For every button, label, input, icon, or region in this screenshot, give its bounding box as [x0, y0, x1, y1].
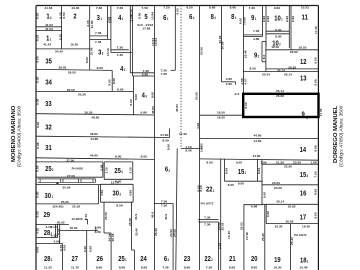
svg-text:7.36: 7.36 [204, 223, 211, 227]
wire 5|4-3 double a [130, 72, 154, 74]
svg-text:8.00: 8.00 [97, 66, 104, 70]
svg-text:8.66: 8.66 [229, 265, 236, 269]
svg-text:3: 3 [306, 116, 308, 120]
svg-text:17.32: 17.32 [179, 132, 187, 136]
svg-text:2: 2 [124, 68, 126, 72]
svg-text:9.3: 9.3 [235, 92, 240, 96]
svg-text:45.9: 45.9 [164, 213, 168, 220]
svg-text:63.56: 63.56 [194, 92, 198, 100]
svg-text:4.86: 4.86 [100, 189, 104, 196]
svg-text:25.18: 25.18 [72, 204, 80, 208]
svg-text:24: 24 [140, 254, 147, 263]
wire 4-3 left edge [132, 76, 134, 115]
svg-text:(Código: 69400) Altura: 3500: (Código: 69400) Altura: 3500 [16, 105, 22, 167]
svg-text:8.56: 8.56 [116, 203, 123, 207]
parcel 22-1 [206, 185, 214, 194]
wire 22-1|22-2 double b [198, 221, 218, 223]
svg-text:27.00: 27.00 [67, 174, 75, 178]
svg-text:6.50: 6.50 [186, 6, 193, 10]
svg-text:43.36: 43.36 [71, 6, 79, 10]
svg-text:21.26: 21.26 [276, 160, 284, 164]
svg-text:9.00: 9.00 [314, 57, 318, 64]
svg-text:7.36: 7.36 [117, 53, 124, 57]
svg-text:26.92: 26.92 [290, 50, 298, 54]
svg-text:5.06: 5.06 [36, 165, 40, 172]
wire 1|2 boundary [61, 6, 63, 49]
wire 1-2|1-1 double a [36, 26, 62, 28]
svg-text:26.14: 26.14 [276, 89, 284, 93]
svg-text:8.66: 8.66 [257, 167, 261, 174]
svg-text:8.00: 8.00 [150, 91, 154, 98]
svg-text:25.46: 25.46 [154, 228, 158, 236]
svg-text:PH 16772: PH 16772 [201, 202, 214, 206]
svg-text:7.36: 7.36 [204, 215, 211, 219]
svg-text:8.66: 8.66 [119, 265, 126, 269]
svg-text:8.00: 8.00 [108, 79, 112, 86]
wire 26|25 upper [103, 202, 105, 233]
svg-text:44.80: 44.80 [254, 134, 262, 138]
svg-text:17: 17 [300, 212, 307, 221]
wire 9-2 tick bottom [262, 61, 266, 63]
svg-text:44.80: 44.80 [90, 137, 98, 141]
svg-text:8.00: 8.00 [115, 155, 122, 159]
svg-text:25.40: 25.40 [135, 228, 139, 236]
svg-text:11.70: 11.70 [71, 265, 79, 269]
svg-text:8.50: 8.50 [138, 12, 142, 19]
svg-text:25.40: 25.40 [261, 233, 265, 241]
svg-text:43.9: 43.9 [134, 213, 138, 220]
svg-text:8.66: 8.66 [96, 265, 103, 269]
wire 9|10 double left [261, 6, 263, 37]
PH corridor dark mark [56, 183, 58, 185]
svg-text:34: 34 [45, 78, 52, 87]
wire 25|24 jog [132, 249, 135, 251]
svg-text:7.36: 7.36 [162, 265, 169, 269]
parcel 30-1 [45, 191, 53, 200]
svg-text:63.56: 63.56 [200, 47, 204, 55]
svg-text:48.80: 48.80 [91, 116, 99, 120]
svg-text:6.00: 6.00 [36, 211, 40, 218]
svg-text:7.00: 7.00 [313, 171, 317, 178]
svg-text:8.66: 8.66 [251, 265, 258, 269]
svg-text:4.10: 4.10 [35, 227, 39, 234]
PH corridor inner strip [38, 179, 96, 182]
svg-text:18: 18 [300, 256, 307, 265]
svg-text:11.25: 11.25 [44, 265, 52, 269]
svg-text:26: 26 [97, 254, 104, 263]
svg-text:8.00: 8.00 [129, 99, 133, 106]
svg-text:8.00: 8.00 [275, 35, 282, 39]
wire 10-1 bottom double a [266, 30, 289, 32]
svg-text:11.00: 11.00 [90, 20, 94, 28]
svg-text:6.00: 6.00 [36, 191, 40, 198]
wire 8-1 jog tick [234, 82, 236, 85]
svg-text:18.30: 18.30 [274, 224, 282, 228]
svg-text:8.00: 8.00 [228, 183, 235, 187]
svg-text:2: 2 [119, 192, 121, 196]
svg-text:20: 20 [251, 254, 258, 263]
wire 15-2|16 left edge [261, 160, 263, 205]
wire 17 left edge [265, 204, 267, 223]
svg-text:4.06: 4.06 [35, 246, 39, 253]
svg-text:MORENO MARIANO: MORENO MARIANO [11, 105, 17, 162]
svg-text:28: 28 [44, 228, 51, 237]
svg-text:30.26: 30.26 [85, 110, 93, 114]
svg-text:9.96: 9.96 [266, 15, 270, 22]
svg-text:7.36: 7.36 [117, 45, 124, 49]
svg-text:10.66: 10.66 [242, 17, 246, 25]
wire 5|4-3 double b [133, 75, 155, 77]
svg-text:32: 32 [45, 123, 52, 132]
svg-text:9.00: 9.00 [238, 182, 245, 186]
svg-text:2: 2 [169, 169, 171, 173]
svg-text:8.00: 8.00 [250, 66, 257, 70]
wire 22|21 boundary [220, 159, 222, 270]
wire 9|10 double right [265, 6, 267, 47]
svg-text:8.00: 8.00 [112, 77, 116, 84]
wire 28-2 right edge [57, 224, 59, 237]
svg-text:29.50: 29.50 [67, 88, 75, 92]
svg-text:27: 27 [72, 254, 79, 263]
svg-text:9.00: 9.00 [274, 6, 281, 10]
svg-text:3.08: 3.08 [100, 164, 104, 171]
wire corridor 3|4 right [110, 6, 112, 53]
svg-text:8.66: 8.66 [88, 245, 92, 252]
svg-text:1: 1 [307, 260, 309, 264]
svg-text:25: 25 [118, 254, 125, 263]
wire 23 left second line [172, 203, 174, 270]
wire 28-2 inner line [54, 224, 56, 237]
svg-text:9: 9 [301, 109, 304, 118]
parcel 6-2 [165, 165, 170, 174]
wire 14 top line [200, 137, 319, 139]
wire 3-1|3-2 double a [90, 35, 108, 37]
svg-text:4.86: 4.86 [253, 37, 260, 41]
svg-text:7.36: 7.36 [96, 6, 103, 10]
svg-text:1: 1 [51, 258, 53, 262]
svg-text:9.96: 9.96 [285, 15, 289, 22]
svg-text:12: 12 [300, 57, 307, 66]
svg-text:20.82: 20.82 [286, 220, 294, 224]
svg-text:16.30: 16.30 [70, 42, 78, 46]
wire 22 sliver line [218, 222, 220, 270]
svg-text:4: 4 [121, 170, 123, 174]
svg-text:18.53: 18.53 [299, 46, 307, 50]
svg-text:10.48: 10.48 [299, 265, 307, 269]
wire 6-2|6-3 notch [154, 202, 173, 204]
parcel 25-4 [114, 166, 122, 175]
svg-text:15.06: 15.06 [106, 48, 110, 56]
svg-text:34.40: 34.40 [55, 49, 63, 53]
wire PH corridor bottom [36, 183, 101, 185]
wire 10-1 bottom double b [266, 33, 289, 35]
svg-text:16.50: 16.50 [217, 116, 225, 120]
parcel 9-1 [251, 13, 256, 22]
svg-text:45.90: 45.90 [151, 106, 155, 114]
svg-text:41.63: 41.63 [45, 6, 53, 10]
svg-text:PH 9428: PH 9428 [72, 167, 83, 171]
svg-text:11: 11 [302, 13, 309, 22]
wire 15-1 left edge [224, 159, 226, 182]
svg-text:24.52: 24.52 [172, 229, 176, 237]
svg-text:4.86: 4.86 [129, 189, 133, 196]
wire long under 31 left [36, 158, 154, 160]
svg-text:13: 13 [300, 74, 307, 83]
svg-text:30: 30 [45, 191, 52, 200]
svg-text:45.90: 45.90 [175, 104, 179, 112]
parcel 6-3 [164, 254, 169, 263]
svg-text:4.66: 4.66 [196, 122, 200, 129]
svg-text:21: 21 [229, 254, 236, 263]
svg-text:8.66: 8.66 [314, 145, 318, 152]
wire 25|24 upper [131, 202, 133, 250]
svg-text:9.00: 9.00 [239, 17, 243, 24]
wire 25-2 right edge [102, 162, 104, 177]
parcel 28-2 [44, 228, 52, 237]
svg-text:4.57: 4.57 [243, 78, 247, 85]
wire 6-1|6-4 dashed boundary [180, 6, 182, 149]
wire 15-1 bottom [225, 180, 263, 182]
parcel 3-2 [98, 48, 103, 57]
svg-text:25.06: 25.06 [104, 212, 108, 220]
svg-text:19: 19 [274, 255, 281, 264]
parcel 4-3 [142, 91, 147, 100]
svg-text:48.80: 48.80 [90, 132, 98, 136]
wire 26|25 lower [110, 233, 112, 270]
svg-text:8.00: 8.00 [166, 143, 170, 150]
wire 25-4 left edge [103, 162, 105, 179]
parcel 4-1 [118, 13, 123, 22]
wire 28-2 side [59, 224, 61, 243]
svg-text:3.08: 3.08 [109, 16, 113, 23]
wire 28-2 bottom [36, 237, 58, 239]
parcel 1-1 [46, 33, 51, 42]
svg-text:7.36: 7.36 [161, 204, 168, 208]
svg-text:1: 1 [255, 17, 257, 21]
svg-text:33: 33 [45, 99, 52, 108]
svg-text:26.14: 26.14 [276, 200, 284, 204]
wire 4-1|4-2 double a [111, 49, 129, 51]
svg-text:26.08: 26.08 [276, 94, 284, 98]
svg-text:7.36: 7.36 [253, 29, 260, 33]
wire 30-1 right edge [98, 185, 100, 204]
svg-text:1: 1 [122, 17, 124, 21]
svg-text:1: 1 [125, 258, 127, 262]
wire 9-2 right double a [261, 42, 263, 62]
svg-text:25.08: 25.08 [128, 218, 132, 226]
svg-text:1: 1 [100, 17, 102, 21]
wire 22-1|22-2 double a [198, 218, 218, 220]
svg-text:4.06: 4.06 [53, 240, 60, 244]
svg-text:2: 2 [52, 168, 54, 172]
svg-text:8.26: 8.26 [36, 34, 40, 41]
svg-text:1: 1 [167, 17, 169, 21]
svg-text:8.66: 8.66 [230, 6, 237, 10]
wire 20 top [244, 204, 263, 206]
svg-text:8.20: 8.20 [58, 33, 62, 40]
svg-text:17.86: 17.86 [142, 27, 150, 31]
block top border [36, 5, 318, 7]
svg-text:8.66: 8.66 [313, 188, 317, 195]
wire 10|11 double right [290, 6, 292, 50]
wire 3-1|3-2 double b [90, 38, 111, 40]
svg-text:16: 16 [300, 188, 307, 197]
street label MORENO MARIANO (left) [11, 105, 23, 167]
parcel 10-1 [274, 13, 282, 22]
wire 26 top tick [95, 227, 97, 231]
parcel 1-2 [46, 12, 51, 21]
svg-text:2: 2 [258, 55, 260, 59]
wire 25-4 top [104, 161, 133, 163]
svg-text:6.00: 6.00 [36, 76, 40, 83]
svg-text:25.26: 25.26 [61, 200, 69, 204]
svg-text:6.00: 6.00 [36, 98, 40, 105]
svg-text:3: 3 [168, 258, 170, 262]
svg-text:1.06: 1.06 [260, 160, 267, 164]
wire 15-1 right edge [257, 159, 259, 182]
svg-text:7.36: 7.36 [95, 31, 102, 35]
svg-text:2: 2 [102, 52, 104, 56]
wire 27|26 boundary [86, 231, 88, 270]
svg-text:1: 1 [213, 189, 215, 193]
svg-text:20.96: 20.96 [221, 41, 225, 49]
svg-text:16.30: 16.30 [70, 226, 78, 230]
parcel 6-1 [163, 13, 168, 22]
wire 30-2 right edge [132, 184, 134, 202]
svg-text:15.48: 15.48 [245, 232, 249, 240]
svg-text:8.0: 8.0 [262, 54, 266, 59]
wire corridor 3|4 left [107, 6, 109, 40]
svg-text:23.26: 23.26 [284, 164, 292, 168]
svg-text:10.0006: 10.0006 [71, 217, 82, 221]
wire 2|3 boundary [89, 6, 91, 70]
svg-text:8.00: 8.00 [244, 102, 248, 109]
parcel 30-2 [113, 188, 121, 197]
wire under 33 and 4-3 [36, 114, 154, 115]
svg-text:8.00: 8.00 [206, 160, 213, 164]
svg-text:45.9: 45.9 [151, 211, 155, 218]
svg-text:8.50: 8.50 [62, 12, 66, 19]
wire 5|6 long boundary [153, 6, 155, 270]
svg-text:44.80: 44.80 [253, 154, 261, 158]
svg-text:26.92: 26.92 [57, 221, 65, 225]
svg-text:25: 25 [114, 166, 121, 175]
svg-text:9.30: 9.30 [83, 245, 87, 252]
parcel 18-1 [300, 256, 308, 265]
parcel 28-1 [44, 254, 52, 263]
svg-text:8.00: 8.00 [141, 155, 148, 159]
wire 8-4|8-1 boundary [220, 6, 222, 82]
svg-text:2.26: 2.26 [217, 242, 221, 249]
svg-text:4: 4 [214, 16, 216, 20]
svg-text:1: 1 [50, 37, 52, 41]
svg-text:10.94: 10.94 [151, 12, 155, 20]
svg-text:4.80: 4.80 [226, 77, 233, 81]
svg-text:8.00: 8.00 [314, 212, 318, 219]
svg-text:10: 10 [274, 13, 281, 22]
wire under 34 and 4-2 [36, 91, 133, 93]
svg-text:7.36: 7.36 [249, 6, 256, 10]
svg-text:1: 1 [245, 171, 247, 175]
wire 28|27 boundary [61, 244, 63, 270]
wire under 1-1 and 2 [36, 48, 90, 50]
svg-text:35: 35 [45, 56, 52, 65]
svg-text:8.66: 8.66 [224, 167, 228, 174]
svg-text:8.56: 8.56 [117, 88, 124, 92]
svg-text:7.50: 7.50 [142, 6, 149, 10]
svg-text:15.40: 15.40 [227, 231, 231, 239]
wire 19|18 boundary [290, 224, 292, 270]
svg-text:6.00: 6.00 [36, 121, 40, 128]
wire 25|24 lower [133, 250, 135, 270]
svg-text:7.36: 7.36 [117, 6, 124, 10]
svg-text:41.53: 41.53 [45, 27, 53, 31]
parcel 8-4 [211, 12, 216, 21]
wire 16 top [262, 184, 318, 186]
svg-text:9.00: 9.00 [175, 8, 179, 15]
svg-text:1: 1 [51, 195, 53, 199]
parcel 6-4 [189, 12, 194, 21]
svg-text:31: 31 [45, 143, 52, 152]
svg-text:16.50: 16.50 [217, 111, 225, 115]
svg-text:6.08: 6.08 [36, 142, 40, 149]
svg-text:8.66: 8.66 [314, 79, 318, 86]
svg-text:2: 2 [50, 16, 52, 20]
svg-text:7.36: 7.36 [206, 265, 213, 269]
highlighted parcel 9-3 thick outline [243, 94, 318, 117]
svg-text:29.81: 29.81 [59, 66, 67, 70]
svg-text:1: 1 [235, 16, 237, 20]
wire 25-4 right edge [132, 162, 134, 179]
svg-text:8.66: 8.66 [95, 230, 102, 234]
svg-text:29.50: 29.50 [68, 71, 76, 75]
wire 8-1 jog [221, 81, 235, 83]
svg-text:9.96: 9.96 [291, 15, 295, 22]
wire 29 bottom [36, 223, 69, 225]
svg-text:8.00: 8.00 [85, 57, 89, 64]
wire 21|20 boundary [243, 204, 245, 270]
wire strip under 8 columns [200, 114, 243, 116]
wire 9-1 bottom double b [243, 36, 262, 38]
parcel 9-2 [254, 51, 259, 60]
svg-text:18.48: 18.48 [302, 224, 310, 228]
svg-text:2: 2 [307, 174, 309, 178]
svg-text:22: 22 [206, 185, 213, 194]
wire 12 bottom [266, 68, 319, 70]
svg-text:9.86: 9.86 [141, 110, 148, 114]
street label DORREGO MANUEL (right) [333, 105, 344, 167]
wire 10-2 and 11 bottom [265, 49, 318, 51]
svg-text:7.36: 7.36 [95, 40, 102, 44]
svg-text:5.15: 5.15 [129, 9, 133, 16]
wire 6 main lower boundary (sloped) [176, 148, 177, 270]
wire 6-1|6-4 upper boundary [174, 6, 176, 71]
svg-text:9.00: 9.00 [236, 160, 243, 164]
wire corridor 4|5 left [129, 6, 131, 73]
wire long under 31 right [200, 159, 319, 160]
svg-text:23.26: 23.26 [274, 186, 282, 190]
wire 26|25 jog [104, 232, 111, 234]
wire tick x169.6 [169, 129, 171, 138]
wire 13 top [243, 71, 318, 73]
svg-text:12.76: 12.76 [111, 181, 119, 185]
block left border [35, 6, 37, 270]
wire 29 inner tick [86, 219, 88, 224]
wire 1-2|1-1 double b [36, 30, 62, 32]
svg-text:8.66: 8.66 [184, 265, 191, 269]
parcel 22-2 [204, 254, 212, 263]
svg-text:27.00: 27.00 [66, 158, 74, 162]
